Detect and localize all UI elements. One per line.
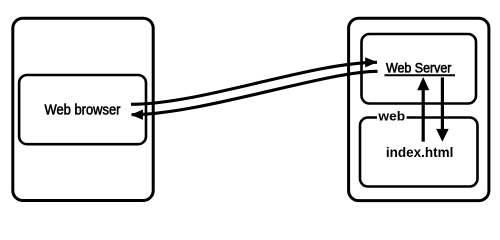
svg-text:Web Server: Web Server [386, 61, 452, 76]
server machine outer box [349, 18, 489, 200]
web folder box [360, 118, 478, 187]
white gap behind "web" label [377, 109, 407, 123]
down arrowhead at index.html [436, 129, 449, 142]
web browser box [19, 75, 146, 144]
up wire (web folder to web server) [422, 89, 425, 142]
web server box [362, 34, 477, 104]
up arrowhead at web server [417, 77, 429, 90]
svg-text:Web browser: Web browser [45, 102, 121, 119]
svg-text:index.html: index.html [386, 145, 454, 160]
response arrowhead at web browser [131, 110, 143, 120]
underline under "Web Server" [385, 74, 456, 76]
svg-text:web: web [377, 109, 405, 124]
request arrowhead at web server [365, 57, 377, 67]
client machine outer box [13, 18, 153, 200]
request wire (browser to server) [131, 62, 377, 104]
response wire (server to browser) [132, 71, 378, 114]
down wire (web server to web folder) [441, 77, 444, 131]
